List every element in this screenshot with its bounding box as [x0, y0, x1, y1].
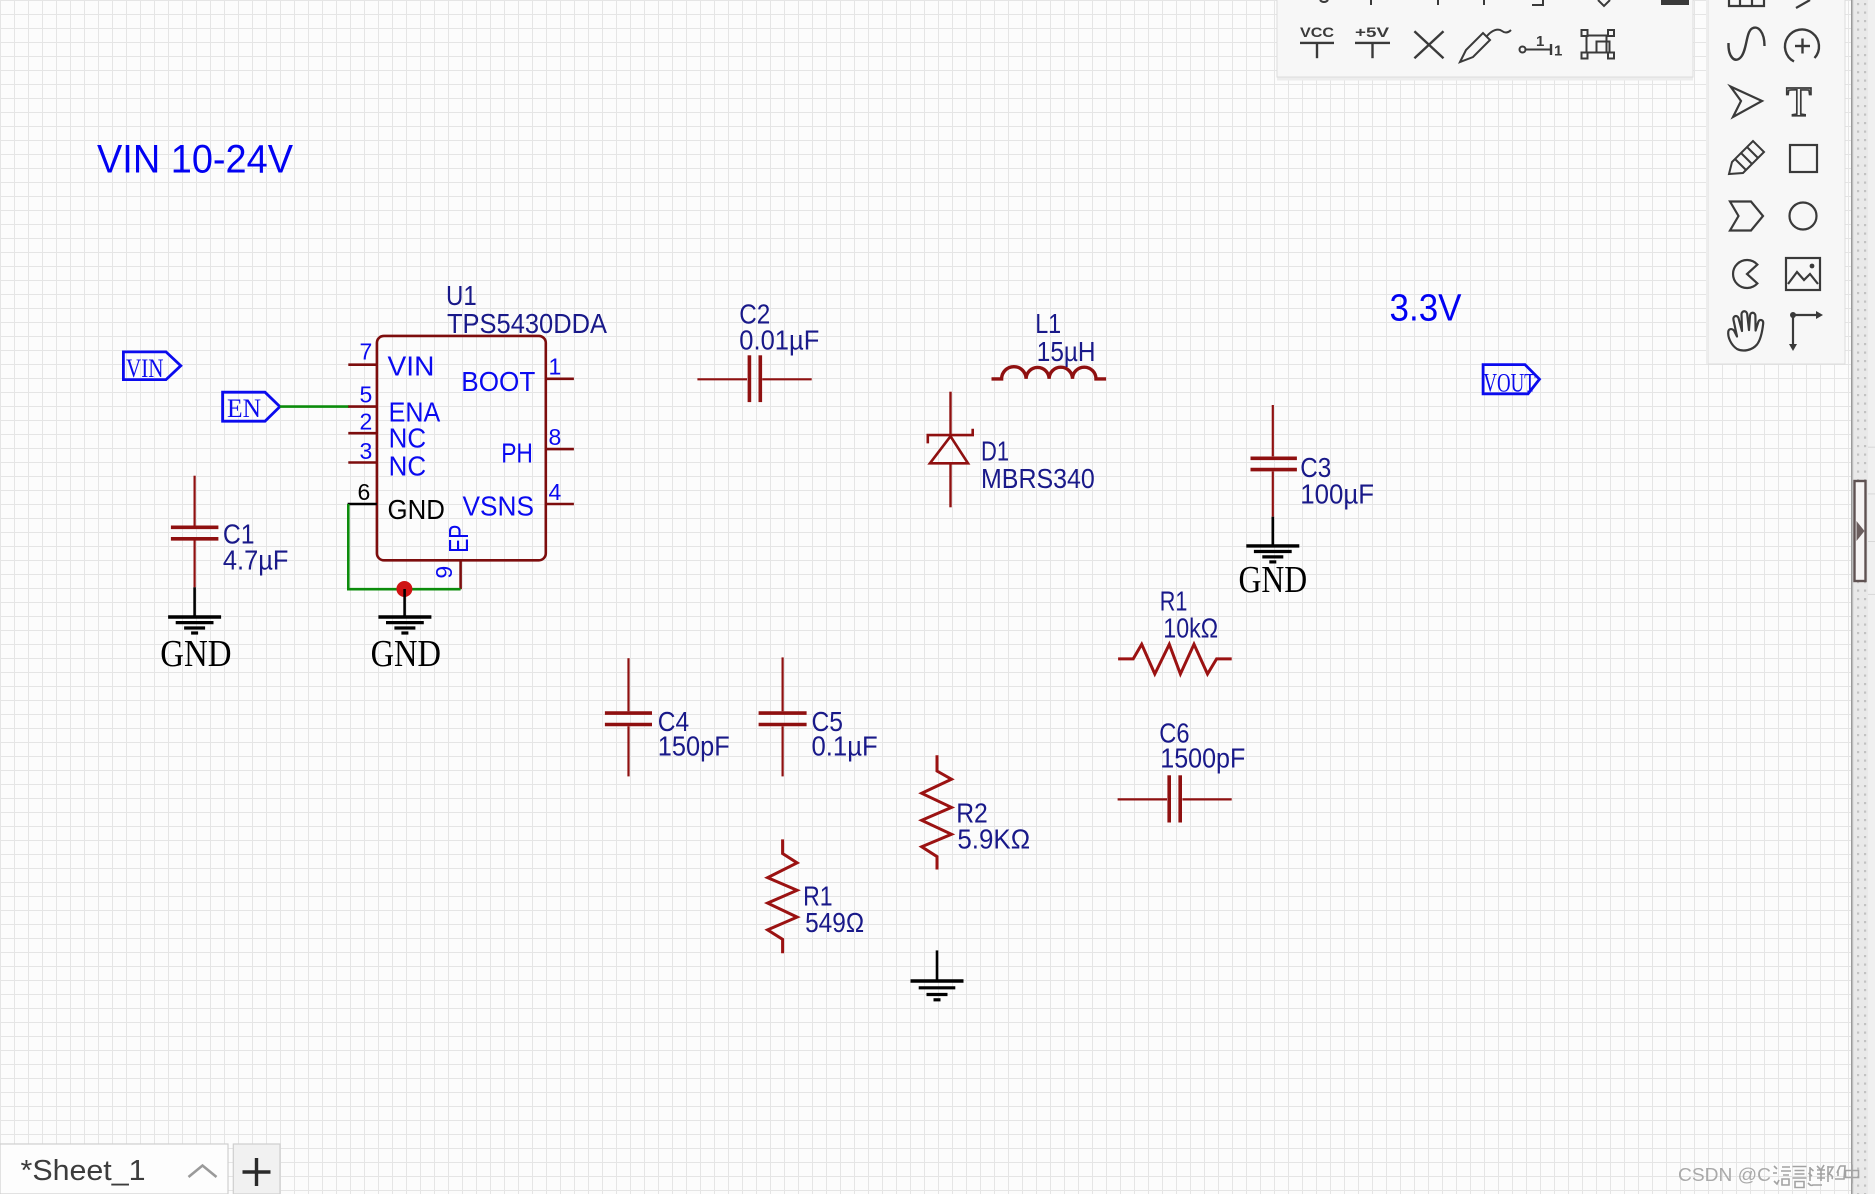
net flag VIN: [123, 352, 180, 383]
icon polygon chevron: [1730, 202, 1763, 231]
svg-text:PH: PH: [501, 438, 533, 469]
svg-text:1: 1: [1554, 43, 1562, 60]
pin label EP (rotated): [443, 525, 474, 553]
svg-text:549Ω: 549Ω: [805, 907, 864, 938]
pin 1 BOOT stub: [546, 354, 574, 380]
wire EN to pin5 (green): [280, 405, 349, 408]
pin 7 VIN stub: [348, 338, 377, 364]
icon spline: [1728, 28, 1764, 60]
svg-text:GND: GND: [1239, 559, 1308, 601]
svg-text:*Sheet_1: *Sheet_1: [21, 1155, 146, 1187]
toolbar icon +5V: [1355, 24, 1390, 58]
toolbar icon X (no connect): [1414, 31, 1443, 58]
svg-text:D1: D1: [981, 435, 1009, 466]
U1 reference label: [446, 280, 607, 339]
R2 labels: [956, 798, 1030, 855]
icon text T: [1786, 80, 1812, 126]
D1 labels: [981, 435, 1095, 494]
capacitor C4: [605, 658, 652, 776]
capacitor C5: [759, 657, 807, 776]
svg-text:VOUT: VOUT: [1483, 368, 1535, 397]
panel collapse handle: [1855, 481, 1866, 581]
svg-text:1500pF: 1500pF: [1160, 743, 1245, 774]
ground GND1 (C1): [160, 617, 231, 675]
svg-text:EP: EP: [443, 525, 474, 553]
svg-text:MBRS340: MBRS340: [981, 463, 1095, 494]
svg-text:15µH: 15µH: [1037, 336, 1096, 367]
icon step-line: [1789, 311, 1823, 351]
junction dot: [396, 581, 412, 597]
svg-text:VIN: VIN: [388, 351, 435, 382]
svg-text:10kΩ: 10kΩ: [1163, 612, 1218, 643]
svg-text:0.1µF: 0.1µF: [812, 731, 878, 762]
pin 8 PH stub: [546, 424, 574, 450]
svg-text:7: 7: [360, 338, 373, 364]
net label VIN 10-24V: [97, 138, 293, 182]
svg-text:GND: GND: [371, 633, 441, 675]
svg-text:1: 1: [1536, 33, 1544, 50]
pin label BOOT: [461, 366, 535, 397]
wire pin6 to EP (green L): [348, 504, 460, 589]
svg-text:CSDN @C: CSDN @C: [1678, 1165, 1771, 1185]
svg-text:1: 1: [549, 354, 562, 380]
pin 2 NC stub: [348, 409, 377, 435]
svg-text:4: 4: [549, 479, 562, 505]
svg-text:3: 3: [360, 438, 373, 464]
pin label ENA: [389, 397, 441, 428]
svg-text:VCC: VCC: [1300, 24, 1334, 40]
svg-text:150pF: 150pF: [658, 731, 730, 762]
watermark chinese glyphs (语言进阶中): [1773, 1165, 1859, 1188]
ground GND3 (C3): [1239, 546, 1308, 601]
C2 labels: [739, 299, 819, 356]
svg-text:NC: NC: [389, 422, 427, 453]
resistor R1 10k (horizontal): [1118, 644, 1232, 674]
svg-text:0.01µF: 0.01µF: [739, 324, 819, 355]
icon pie/arc: [1733, 260, 1757, 288]
svg-text:5: 5: [360, 382, 373, 408]
svg-text:+5V: +5V: [1355, 24, 1390, 40]
capacitor C6: [1118, 775, 1232, 822]
R1 549 labels: [803, 881, 864, 938]
icon circle: [1790, 203, 1817, 230]
svg-text:100µF: 100µF: [1300, 479, 1374, 510]
C6 labels: [1159, 718, 1245, 774]
net flag EN: [223, 392, 280, 423]
sheet add button: [233, 1144, 280, 1194]
pin label PH: [501, 438, 533, 469]
toolbar icon group: [1582, 30, 1615, 59]
watermark CSDN: [1678, 1165, 1771, 1185]
icon pencil: [1729, 141, 1764, 174]
top toolbar panel: [1277, 0, 1693, 81]
wire C3 to GND3: [1272, 517, 1275, 546]
capacitor C3: [1251, 405, 1297, 517]
pin 6 GND stub (black wire): [348, 479, 377, 505]
C3 labels: [1300, 452, 1374, 509]
capacitor C1: [171, 476, 219, 588]
resistor R1 549 (vertical): [768, 839, 798, 953]
svg-text:TPS5430DDA: TPS5430DDA: [447, 308, 607, 339]
dotted texture: [0, 0, 1, 1]
R1 10k labels: [1160, 586, 1218, 644]
svg-text:4.7µF: 4.7µF: [223, 545, 289, 576]
toolbar icon VCC: [1300, 24, 1334, 58]
inductor L1: [992, 367, 1107, 379]
icon hand: [1728, 311, 1763, 350]
pin 9 EP stub: [431, 560, 461, 589]
ground GND4 (floating): [911, 981, 964, 1000]
svg-text:GND: GND: [388, 494, 445, 525]
svg-text:6: 6: [358, 479, 371, 505]
icon rectangle: [1790, 145, 1817, 172]
wire C1 to GND1: [193, 587, 196, 617]
sheet tab bar: [0, 1144, 228, 1194]
right tool panel: [1706, 0, 1845, 364]
toolbar icon pen/wire: [1460, 30, 1511, 62]
icon arc-plus: [1785, 29, 1819, 61]
toolbar icon net port: [1520, 33, 1563, 60]
C4 labels: [658, 706, 730, 762]
net flag VOUT: [1483, 365, 1539, 398]
svg-text:2: 2: [360, 409, 373, 435]
right hidden panel column: [1868, 0, 1875, 1194]
wire junction to GND2: [403, 589, 406, 617]
pin label NC (pin3): [389, 450, 427, 481]
right edge divider: [1851, 0, 1854, 1194]
svg-text:VSNS: VSNS: [463, 490, 535, 521]
wire stub above GND4: [936, 950, 939, 981]
pin label VSNS: [463, 490, 535, 521]
pin label NC (pin2): [389, 422, 427, 453]
svg-text:U1: U1: [446, 280, 477, 311]
right panel partial top row: [1729, 0, 1810, 8]
toolbar partial top-row icon bottoms: [1320, 0, 1688, 6]
svg-text:EN: EN: [227, 394, 261, 423]
svg-text:BOOT: BOOT: [461, 366, 535, 397]
pin label GND (black): [388, 494, 445, 525]
C5 labels: [812, 706, 878, 762]
diode D1 (schottky): [928, 392, 973, 508]
resistor R2 5.9K (vertical): [922, 755, 952, 869]
L1 labels: [1035, 308, 1095, 367]
ground GND2 (under U1): [371, 617, 441, 675]
pin 4 VSNS stub: [546, 479, 574, 505]
capacitor C2: [697, 355, 811, 402]
svg-text:5.9KΩ: 5.9KΩ: [957, 823, 1030, 854]
C1 labels: [223, 519, 289, 576]
svg-text:VIN: VIN: [126, 354, 164, 383]
op-amp U1 TPS5430DDA body: [377, 336, 546, 560]
svg-text:L1: L1: [1035, 308, 1061, 339]
svg-text:NC: NC: [389, 450, 427, 481]
net label 3.3V: [1390, 288, 1463, 330]
pin label VIN: [388, 351, 435, 382]
pin 5 ENA stub: [348, 382, 377, 408]
svg-text:GND: GND: [160, 633, 231, 675]
icon image: [1786, 258, 1820, 290]
pin 3 NC stub: [348, 438, 377, 464]
svg-text:VIN 10-24V: VIN 10-24V: [97, 138, 293, 182]
icon arrow: [1731, 87, 1763, 118]
svg-text:9: 9: [431, 566, 457, 579]
svg-text:T: T: [1786, 80, 1812, 126]
svg-text:3.3V: 3.3V: [1390, 288, 1463, 330]
right dotted strip: [1854, 0, 1868, 1194]
svg-text:8: 8: [549, 424, 562, 450]
